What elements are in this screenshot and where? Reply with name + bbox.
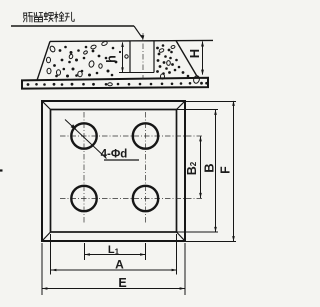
svg-text:h: h (104, 55, 118, 63)
svg-text:F: F (218, 166, 232, 174)
svg-text:4-Φd: 4-Φd (101, 149, 128, 161)
svg-text:E: E (118, 276, 126, 290)
svg-text:B: B (201, 163, 216, 172)
svg-text:A: A (115, 257, 124, 271)
svg-text:H: H (187, 49, 202, 58)
